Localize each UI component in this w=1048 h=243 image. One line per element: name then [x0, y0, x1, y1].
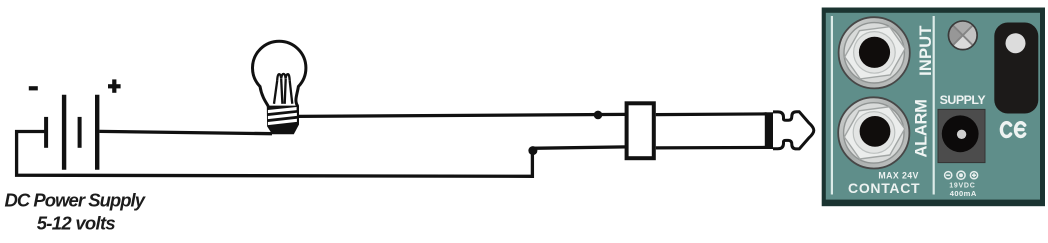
node junction dot at sleeve wire: [528, 146, 537, 155]
DC power inlet J3: [938, 109, 985, 162]
svg-text:5-12 volts: 5-12 volts: [37, 213, 116, 234]
jack socket J2 ALARM: [838, 97, 909, 168]
lamp DS1 screw base: [267, 106, 299, 135]
svg-text:DC Power Supply: DC Power Supply: [5, 189, 147, 210]
panel divider line middle: [933, 16, 935, 195]
svg-text:ALARM: ALARM: [913, 99, 931, 157]
wire: bulb base to plug tip lug: [299, 114, 626, 116]
polarity symbol: [945, 171, 978, 179]
screw: [949, 21, 978, 50]
CE mark: [1001, 123, 1024, 137]
lamp DS1 glass envelope: [252, 41, 305, 106]
wire: battery negative to bottom rail to plug sleeve riser: [17, 132, 533, 177]
node junction dot at tip wire: [594, 111, 603, 120]
wire: battery positive to bulb base: [99, 131, 272, 133]
svg-text:INPUT: INPUT: [917, 25, 935, 76]
svg-text:SUPPLY: SUPPLY: [940, 93, 987, 107]
lamp base thread bands: [268, 107, 297, 125]
panel outer dark border: [822, 8, 1045, 207]
battery minus label: [29, 86, 38, 90]
jack socket J1 INPUT: [839, 17, 910, 88]
panel divider line left: [831, 16, 833, 195]
plug barrel top line: [656, 112, 767, 116]
battery plus label: [108, 79, 121, 92]
panel teal face: [826, 13, 1040, 200]
plug tip: [773, 112, 814, 149]
wire: junction to plug sleeve: [531, 147, 626, 148]
switch indicator circle: [1006, 33, 1026, 53]
lamp DS1 filament: [274, 74, 292, 104]
plug insulator band: [765, 112, 773, 149]
plug P1 collar: [627, 103, 654, 158]
svg-text:400mA: 400mA: [950, 189, 977, 198]
svg-text:CONTACT: CONTACT: [848, 180, 920, 196]
battery B1: [46, 95, 97, 170]
power switch (black pill): [994, 23, 1038, 114]
plug barrel bottom line: [656, 146, 767, 150]
